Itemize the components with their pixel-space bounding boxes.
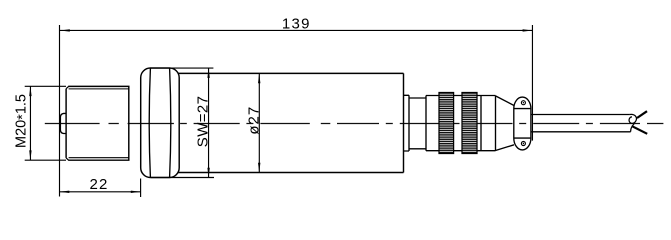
connector small ring <box>409 96 426 151</box>
screw top <box>521 101 525 105</box>
dim dia27 arrow top <box>258 73 260 83</box>
thread minor-diameter lines <box>69 89 129 158</box>
dim M20 arrow top <box>29 86 31 96</box>
thread chamfer diagonals <box>66 86 69 160</box>
dim 22 arrow left <box>60 191 70 193</box>
dim SW arrow top <box>207 68 209 78</box>
SW extension line bottom <box>151 177 214 179</box>
centerline <box>45 123 664 125</box>
hex facet arc left <box>149 68 150 177</box>
cable break squiggle <box>629 114 636 131</box>
connector neck stub <box>404 95 410 151</box>
dim SW=27 line <box>208 68 210 178</box>
dim 22 extension right <box>140 179 142 198</box>
dim SW arrow bottom <box>207 168 209 178</box>
taper cone <box>496 96 515 151</box>
dim 139 extension line right <box>531 25 533 141</box>
dim dia27 arrow bottom <box>258 163 260 173</box>
dim 139 extension line left <box>59 25 61 197</box>
screw bottom <box>521 142 525 146</box>
dim 22 line <box>60 191 141 193</box>
svg-text:ø27: ø27 <box>245 106 262 135</box>
knurled band 1 <box>439 93 454 154</box>
svg-text:22: 22 <box>89 176 108 193</box>
svg-text:SW=27: SW=27 <box>195 96 212 148</box>
thread M20 stud: outer major-diameter lines <box>68 86 129 160</box>
dim dia27 line <box>258 73 260 172</box>
wire stub lower <box>632 126 647 134</box>
dim 139 arrow left <box>60 29 70 31</box>
dim M20 arrow bottom <box>29 150 31 160</box>
hex nut outline <box>141 68 180 178</box>
pressure port tip <box>60 113 66 133</box>
svg-text:M20*1.5: M20*1.5 <box>13 94 31 148</box>
dim M20 line <box>29 86 31 160</box>
cable <box>531 115 631 132</box>
hex facet arc right <box>170 68 171 177</box>
dim 139 arrow right <box>523 29 533 31</box>
dim 22 arrow right <box>131 191 141 193</box>
svg-text:139: 139 <box>282 15 311 32</box>
SW extension line top <box>151 67 213 69</box>
main body cylinder <box>178 73 404 172</box>
cable clamp cap <box>514 97 531 150</box>
dim 139 line <box>60 29 532 31</box>
thread stud left edge <box>65 89 67 158</box>
wire stub upper <box>637 111 647 118</box>
knurled band 2 <box>462 93 477 154</box>
connector cylinder <box>426 96 496 151</box>
dim M20 extension lines <box>25 86 66 160</box>
